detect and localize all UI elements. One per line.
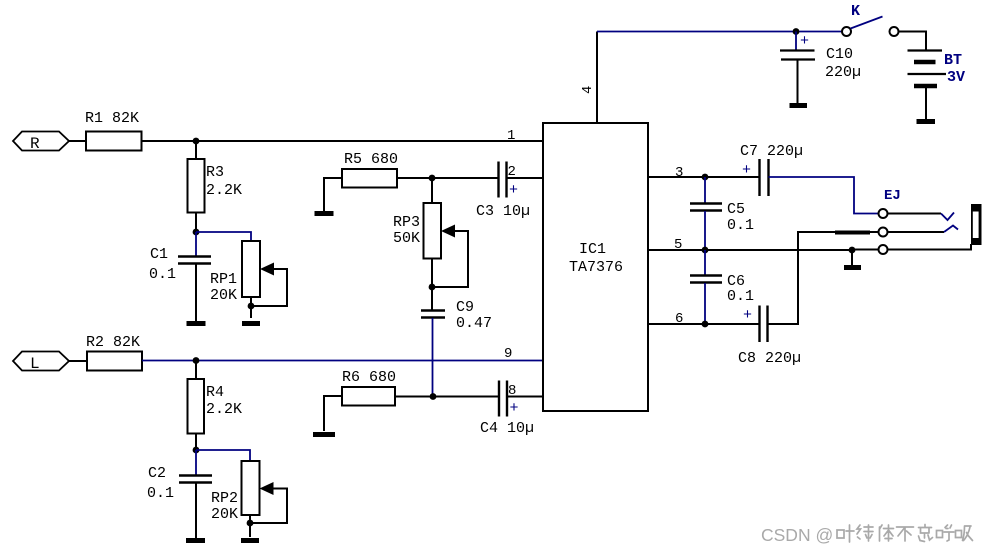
node junction R1/R3	[193, 138, 200, 145]
switch K	[842, 3, 899, 36]
jack sleeve contact circle	[879, 245, 888, 254]
capacitor C6	[690, 250, 754, 324]
svg-text:C3 10µ: C3 10µ	[476, 203, 530, 220]
svg-text:220µ: 220µ	[825, 64, 861, 81]
node junction pin5/ground	[849, 247, 856, 254]
input tag R	[13, 132, 86, 154]
svg-text:+: +	[509, 182, 518, 199]
ground RP1	[242, 321, 260, 326]
jack ring spring	[888, 226, 959, 233]
pin 4 wire	[580, 32, 842, 124]
wire switch to battery	[899, 32, 927, 51]
capacitor C2	[147, 450, 212, 538]
capacitor C7	[740, 143, 803, 196]
svg-text:0.1: 0.1	[727, 217, 754, 234]
ground C1	[187, 321, 206, 326]
svg-text:3: 3	[675, 165, 683, 181]
svg-text:BT: BT	[944, 52, 962, 69]
wire R6 to C4	[395, 396, 499, 398]
node junction pin6/C6/C8	[702, 321, 709, 328]
node junction R6/C9/C4	[430, 393, 437, 400]
wire C7 to jack tip	[769, 177, 879, 214]
resistor R2	[86, 334, 142, 371]
svg-text:RP2: RP2	[211, 490, 238, 507]
input tag L	[13, 352, 87, 374]
svg-text:+: +	[743, 307, 752, 324]
svg-text:CSDN @: CSDN @	[761, 525, 833, 545]
svg-text:EJ: EJ	[884, 188, 901, 204]
node junction pin4/C10	[793, 28, 800, 35]
svg-text:C1: C1	[150, 246, 168, 263]
svg-text:R6 680: R6 680	[342, 369, 396, 386]
svg-text:+: +	[510, 400, 519, 417]
jack plug body	[971, 204, 982, 245]
wire C8 to jack ring	[768, 232, 836, 324]
svg-text:TA7376: TA7376	[569, 259, 623, 276]
svg-text:L: L	[30, 355, 40, 373]
ground R5	[315, 211, 334, 216]
svg-text:C8 220µ: C8 220µ	[738, 350, 801, 367]
svg-text:1: 1	[507, 128, 515, 144]
node junction R3/C1/RP1	[193, 229, 200, 236]
resistor R5	[324, 151, 398, 211]
node junction R5/RP3/C3	[429, 175, 436, 182]
capacitor C9	[421, 287, 492, 396]
pin 3 wire	[648, 165, 759, 181]
potentiometer RP3	[393, 178, 468, 287]
jack ring contact bar	[835, 231, 870, 235]
ground R6	[313, 432, 335, 437]
resistor R3	[188, 141, 243, 232]
node RP3 bottom junction	[429, 284, 436, 291]
capacitor C5	[690, 177, 754, 250]
svg-text:R: R	[30, 135, 40, 153]
node junction R2/R4	[193, 357, 200, 364]
pin 6 wire	[648, 311, 760, 327]
wire R2 to IC pin 9	[142, 360, 543, 362]
svg-text:R5 680: R5 680	[344, 151, 398, 168]
svg-text:0.1: 0.1	[149, 266, 176, 283]
svg-text:C5: C5	[727, 201, 745, 218]
pin 5 wire	[648, 237, 879, 253]
wire R5 to C3	[397, 177, 498, 179]
wire bar to jack ring circle	[870, 231, 879, 233]
svg-text:3V: 3V	[947, 69, 965, 86]
svg-text:C2: C2	[148, 465, 166, 482]
svg-text:6: 6	[675, 311, 683, 327]
svg-text:4: 4	[580, 86, 596, 94]
svg-text:0.1: 0.1	[727, 288, 754, 305]
node junction R4/C2/RP2	[193, 447, 200, 454]
svg-text:R2 82K: R2 82K	[86, 334, 140, 351]
svg-text:+: +	[742, 162, 751, 179]
ground RP2	[241, 538, 259, 543]
svg-text:R4: R4	[206, 384, 224, 401]
node RP1 wiper/bottom	[248, 303, 255, 310]
svg-text:R3: R3	[206, 164, 224, 181]
capacitor C8	[738, 306, 801, 368]
svg-text:2.2K: 2.2K	[206, 182, 242, 199]
svg-text:C9: C9	[456, 299, 474, 316]
resistor R6	[324, 369, 396, 431]
svg-text:C10: C10	[826, 46, 853, 63]
node junction pin5/C5/C6	[702, 247, 709, 254]
resistor R1	[85, 110, 142, 151]
svg-text:5: 5	[674, 237, 682, 253]
svg-text:RP3: RP3	[393, 214, 420, 231]
battery BT 3V	[908, 51, 966, 120]
ground C10	[790, 103, 808, 108]
svg-text:C7 220µ: C7 220µ	[740, 143, 803, 160]
svg-text:K: K	[851, 3, 860, 20]
svg-text:9: 9	[504, 346, 512, 362]
wire R1 to IC pin 1	[142, 140, 544, 142]
node RP2 wiper/bottom	[247, 520, 254, 527]
svg-text:R1 82K: R1 82K	[85, 110, 139, 127]
svg-text:2: 2	[508, 164, 516, 180]
ground jack sleeve	[844, 250, 861, 268]
capacitor C10	[780, 32, 861, 104]
svg-text:IC1: IC1	[579, 241, 606, 258]
wire sleeve to plug	[888, 244, 972, 250]
capacitor C3 (pin 2)	[476, 162, 543, 221]
svg-text:0.1: 0.1	[147, 485, 174, 502]
svg-text:50K: 50K	[393, 230, 420, 247]
capacitor C1	[149, 232, 211, 321]
ground battery	[917, 119, 936, 124]
jack tip contact circle	[879, 209, 888, 218]
watermark	[761, 525, 973, 546]
svg-text:20K: 20K	[210, 287, 237, 304]
capacitor C4 (pin 8)	[480, 381, 543, 438]
potentiometer RP2	[211, 461, 287, 537]
svg-text:2.2K: 2.2K	[206, 401, 242, 418]
op-amp IC1 TA7376	[543, 123, 648, 411]
wire junction to RP2 top	[196, 450, 250, 461]
svg-text:8: 8	[508, 383, 516, 399]
wire junction to RP1 top	[196, 232, 251, 241]
jack tip spring	[888, 213, 955, 221]
svg-text:+: +	[800, 33, 809, 50]
resistor R4	[188, 361, 243, 450]
svg-text:0.47: 0.47	[456, 315, 492, 332]
svg-text:C4 10µ: C4 10µ	[480, 420, 534, 437]
node junction pin3/C5/C7	[702, 174, 709, 181]
jack ring contact circle	[879, 228, 888, 237]
svg-text:20K: 20K	[211, 506, 238, 523]
svg-text:RP1: RP1	[210, 271, 237, 288]
ground C2	[186, 538, 205, 543]
potentiometer RP1	[210, 241, 287, 318]
